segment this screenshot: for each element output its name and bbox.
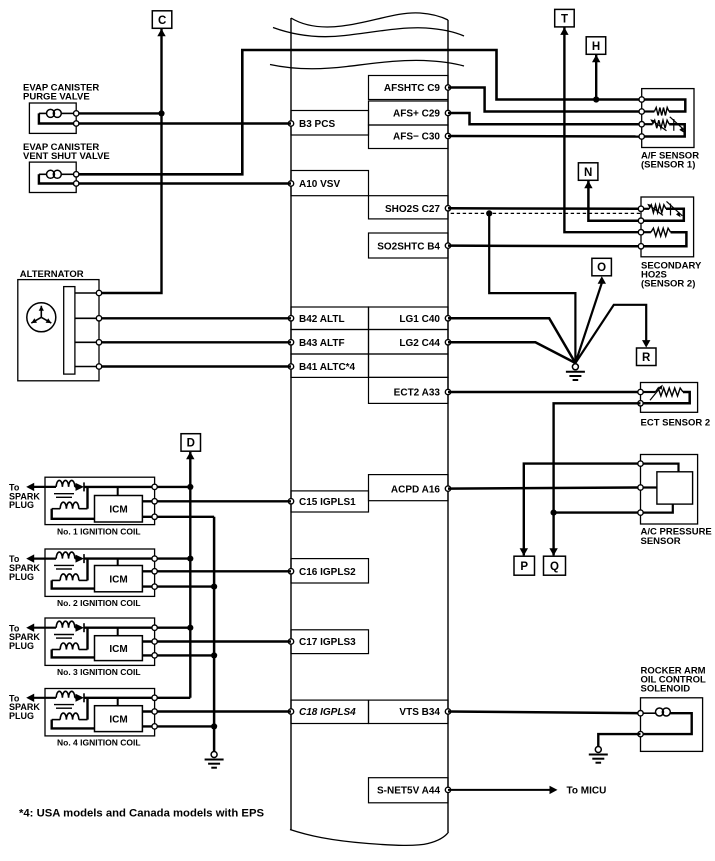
A/C pressure sensor inner element — [657, 472, 693, 504]
ECM pin ACPD A16 terminal — [445, 486, 450, 491]
wire vent valve to A/F sensor heater supply — [79, 50, 642, 174]
svg-text:(SENSOR 2): (SENSOR 2) — [641, 279, 695, 290]
EVAP canister vent shut valve body — [29, 162, 76, 192]
ECM/PCM connector box left edge — [290, 18, 292, 830]
svg-text:ALTERNATOR: ALTERNATOR — [20, 269, 84, 280]
svg-text:No. 3 IGNITION COIL: No. 3 IGNITION COIL — [57, 667, 141, 677]
junction purge wire / C riser — [158, 110, 164, 116]
ECM pin AFS&#8722; C30 label cell — [369, 125, 449, 149]
svg-text:N: N — [584, 167, 592, 179]
svg-text:ICM: ICM — [109, 714, 127, 725]
secondary HO2S body — [641, 197, 694, 257]
ignition coil 1 ICM signal wire to pin — [142, 500, 291, 502]
wire node H vertical — [595, 55, 597, 100]
rocker arm oil control solenoid body — [641, 698, 703, 752]
connector node N box — [578, 163, 598, 181]
node N arrow — [584, 181, 592, 189]
ignition coil 2 secondary return wire — [52, 580, 95, 588]
ignition coil 2 terminals — [152, 556, 157, 561]
ignition coil 3 ICM signal wire to pin — [142, 640, 291, 642]
ignition coil 2 secondary winding — [60, 574, 79, 581]
ECM bottom torn-edge wave — [290, 830, 449, 846]
wire rocker arm solenoid to ground — [598, 734, 640, 746]
node T arrow — [560, 27, 568, 35]
wire ground to node O — [575, 283, 601, 363]
ECM pin SHO2S C27 terminal — [445, 206, 450, 211]
ECM pin C17 IGPLS3 terminal — [288, 639, 293, 644]
ECM pin LG2 C44 label cell — [369, 330, 449, 355]
junction ground bus coil 2 — [211, 584, 217, 590]
svg-text:C16 IGPLS2: C16 IGPLS2 — [299, 567, 356, 578]
connector node H box — [586, 37, 606, 55]
ignition coil 4 primary winding — [56, 691, 75, 698]
svg-text:PLUG: PLUG — [9, 711, 34, 721]
ECM pin C15 IGPLS1 label cell — [291, 491, 369, 512]
ignition coil 3 diode — [76, 624, 85, 632]
ECM pin VTS B34 terminal — [445, 709, 450, 714]
ECM top torn-edge wave 2 — [273, 28, 464, 37]
ignition coil 3 secondary return wire — [52, 650, 95, 658]
ignition coil 2 ICM supply stub — [117, 559, 119, 566]
ECT sensor 2 body — [641, 383, 698, 413]
ECM pin AFSHTC C9 terminal — [445, 85, 450, 90]
svg-text:*4: USA models and Canada mode: *4: USA models and Canada models with EP… — [19, 807, 264, 819]
ECM top torn-edge wave 1 — [291, 13, 448, 27]
ignition coil 4 secondary return wire — [52, 720, 95, 729]
ECM pin AFS+ C29 terminal — [445, 110, 450, 115]
svg-text:C17 IGPLS3: C17 IGPLS3 — [299, 637, 356, 648]
connector node D box — [181, 434, 201, 452]
ignition coil 2 ICM ground wire — [142, 585, 214, 587]
svg-text:No. 4 IGNITION COIL: No. 4 IGNITION COIL — [57, 738, 141, 748]
A/F sensor terminals — [639, 97, 644, 102]
ECM pin B41 ALTC*4 terminal — [288, 364, 293, 369]
ignition coil 3 ICM supply stub — [117, 628, 119, 636]
svg-text:ICM: ICM — [109, 574, 127, 585]
secondary HO2S heater resistor — [641, 231, 651, 233]
ECM pin C17 IGPLS3 label cell — [291, 630, 369, 654]
wire node N vertical to secondary HO2S — [588, 181, 641, 221]
wire pin LG2 C44 to ground — [448, 342, 575, 363]
svg-text:C18 IGPLS4: C18 IGPLS4 — [299, 707, 356, 718]
node P arrow — [520, 548, 528, 556]
svg-text:B43 ALTF: B43 ALTF — [299, 338, 345, 349]
ignition coil 1 ICM box — [95, 496, 143, 523]
A/C pressure sensor body — [641, 455, 698, 525]
secondary HO2S sensing element — [641, 208, 649, 210]
connector node P box — [514, 556, 535, 575]
ignition coil 3 primary output wire — [84, 627, 155, 629]
ECM pin S-NET5V A44 terminal — [445, 787, 450, 792]
junction Q wire / A-C pressure sensor wire — [551, 509, 557, 515]
ECM pin SO2SHTC B4 label cell — [369, 233, 449, 258]
svg-text:ICM: ICM — [109, 504, 127, 515]
ECM pin C16 IGPLS2 label cell — [291, 559, 369, 583]
A/F sensor element arrows — [653, 121, 667, 131]
ignition coil 2 spark plug arrow — [26, 554, 34, 562]
ignition coil 4 ICM supply stub — [117, 698, 119, 706]
node O arrow — [598, 276, 606, 284]
junction H wire on heater supply wire — [593, 96, 599, 102]
ignition coil 1 terminals — [152, 484, 157, 489]
ECM pin AFS+ C29 label cell — [369, 101, 449, 125]
vent valve terminals — [74, 172, 79, 177]
A/F sensor sensing element — [642, 123, 653, 125]
ignition coil 1 primary winding — [56, 480, 75, 487]
rocker arm solenoid ground G101 — [595, 747, 601, 753]
ECM pin A10 VSV terminal — [288, 181, 293, 186]
connector node C box — [152, 11, 172, 29]
ECM pin C15 IGPLS1 terminal — [288, 499, 293, 504]
svg-text:No. 2 IGNITION COIL: No. 2 IGNITION COIL — [57, 598, 141, 608]
node C arrow — [157, 29, 165, 37]
svg-text:D: D — [187, 438, 195, 450]
shield dashed line — [451, 212, 641, 214]
purge valve solenoid coil — [47, 109, 55, 117]
ignition coils ground G100 — [211, 752, 217, 758]
wire pin LG1 C40 to ground — [448, 318, 575, 363]
svg-text:Q: Q — [550, 561, 559, 573]
A/C pressure sensor terminals — [638, 461, 643, 466]
ECM pin LG2 C44 terminal — [445, 340, 450, 345]
ECM pin B43 ALTF label cell — [291, 330, 369, 355]
connector node T box — [555, 9, 575, 27]
wire ground to node R — [575, 305, 646, 363]
ignition coil 4 spark plug arrow — [26, 694, 34, 702]
A/F sensor heater resistor — [642, 110, 655, 112]
alternator generator circle symbol — [27, 303, 56, 332]
vent valve internal wire — [39, 174, 76, 183]
svg-text:A10 VSV: A10 VSV — [299, 179, 340, 190]
svg-text:PLUG: PLUG — [9, 641, 34, 651]
ignition coil 1 primary output wire — [84, 486, 155, 488]
ignition coil 4 terminals — [152, 695, 157, 700]
ECM pin SHO2S C27 label cell — [369, 196, 449, 219]
svg-text:AFSHTC C9: AFSHTC C9 — [384, 83, 441, 94]
svg-text:VTS B34: VTS B34 — [399, 707, 440, 718]
To MICU arrow — [550, 786, 558, 794]
wire vent valve to pin A10 VSV — [79, 182, 291, 184]
A/F sensor body — [642, 89, 694, 148]
ignition coil 1 core — [54, 493, 74, 495]
secondary HO2S element arrows — [650, 205, 664, 215]
ECM pin C18 IGPLS4 label cell — [291, 700, 369, 723]
ECM pin B41 ALTC*4 label cell — [291, 354, 369, 377]
rocker arm solenoid coil — [641, 712, 657, 714]
svg-text:LG1 C40: LG1 C40 — [399, 314, 440, 325]
wire shield drain to ground — [489, 213, 575, 363]
junction D bus coil 2 — [187, 556, 193, 562]
ignition coil 4 ICM signal wire to pin — [142, 710, 291, 712]
ignition coil 2 primary winding — [56, 552, 75, 559]
wire A/C pressure sensor to node P — [524, 464, 641, 556]
wire node T vertical to secondary HO2S — [564, 27, 641, 232]
wire A/C pressure sensor low side to node Q — [554, 511, 641, 513]
svg-text:PURGE VALVE: PURGE VALVE — [23, 92, 90, 103]
ignition coil 2 primary output wire — [84, 557, 155, 559]
ignition coil 2 diode — [76, 555, 85, 563]
connector node R box — [637, 348, 657, 366]
ECM pin B3 PCS terminal — [288, 121, 293, 126]
svg-text:SHO2S C27: SHO2S C27 — [385, 204, 440, 215]
ignition coil 4 diode — [76, 694, 85, 702]
wire pin S-NET5V A44 to MICU — [448, 789, 551, 791]
ECM pin B3 PCS label cell — [291, 111, 369, 136]
wire pin AFS+ C29 to A/F sensor — [448, 113, 642, 124]
ECM pin A10 VSV label cell — [291, 171, 369, 196]
svg-text:C: C — [158, 15, 166, 27]
ECM pin B43 ALTF terminal — [288, 340, 293, 345]
svg-text:SOLENOID: SOLENOID — [641, 683, 691, 694]
ECM top torn-edge wave 3 — [270, 60, 464, 68]
ECM pin unlabeled label cell — [369, 354, 449, 377]
node Q arrow — [549, 548, 557, 556]
ECM pin SO2SHTC B4 terminal — [445, 243, 450, 248]
wire pin SO2SHTC B4 to secondary HO2S — [448, 244, 641, 247]
ignition coil 3 core — [54, 634, 74, 636]
wire pin AFS- C30 to A/F sensor — [448, 135, 642, 138]
svg-text:SO2SHTC B4: SO2SHTC B4 — [377, 241, 440, 252]
ignition coil 3 ICM ground wire — [142, 654, 214, 656]
ignition coil 4 ICM ground wire — [142, 725, 214, 727]
ignition coil 4 secondary winding — [60, 713, 79, 720]
svg-text:LG2 C44: LG2 C44 — [399, 338, 440, 349]
ignition coil 3 body — [45, 618, 155, 665]
ignition coil 1 spark plug arrow — [26, 483, 34, 491]
ECM pin AFS&#8722; C30 terminal — [445, 133, 450, 138]
svg-text:PLUG: PLUG — [9, 500, 34, 510]
vent valve solenoid coil — [47, 170, 55, 178]
ECM pin C18 IGPLS4 terminal — [288, 709, 293, 714]
ignition coil 2 ICM signal wire to pin — [142, 570, 291, 572]
ignition coil 1 body — [45, 477, 155, 524]
ignition coil 1 ICM supply stub — [117, 487, 119, 496]
node H arrow — [592, 55, 600, 63]
ECM pin AFSHTC C9 label cell — [369, 76, 449, 100]
wire pin AFSHTC C9 to A/F sensor — [448, 88, 642, 112]
ignition ground bus — [213, 517, 216, 752]
ECT sensor 2 terminals — [638, 389, 643, 394]
ignition coil 3 ICM box — [95, 636, 143, 661]
ECM pin C16 IGPLS2 terminal — [288, 569, 293, 574]
ECT sensor 2 thermistor arrow — [650, 387, 661, 400]
ECM pin B42 ALTL terminal — [288, 316, 293, 321]
svg-text:T: T — [561, 13, 568, 25]
svg-text:B41 ALTC*4: B41 ALTC*4 — [299, 362, 356, 373]
ECM pin S-NET5V A44 label cell — [369, 778, 449, 803]
ignition coil 3 primary winding — [56, 621, 75, 628]
rocker arm solenoid terminals — [638, 711, 643, 716]
ignition coil 3 secondary winding — [60, 643, 79, 650]
wire pin ECT2 A33 to ECT sensor 2 — [448, 391, 641, 394]
ignition coil 1 secondary return wire — [52, 509, 95, 519]
ignition coil 1 secondary winding — [60, 502, 79, 509]
node D arrow — [186, 452, 194, 460]
ignition coil 1 supply wire to node D bus — [155, 486, 191, 488]
svg-text:(SENSOR 1): (SENSOR 1) — [641, 160, 695, 171]
wire pin VTS B34 to rocker arm solenoid — [448, 712, 641, 714]
alternator connector strip — [64, 287, 75, 375]
ECM pin ECT2 A33 label cell — [369, 377, 449, 403]
ignition coil 3 spark plug arrow — [26, 624, 34, 632]
ignition coil 3 supply wire to node D bus — [155, 627, 191, 629]
ignition coil 4 body — [45, 689, 155, 736]
connector node Q box — [544, 556, 566, 575]
svg-text:H: H — [592, 41, 600, 53]
ignition coil 1 diode — [76, 483, 85, 491]
ignition coil 2 ICM box — [95, 566, 143, 592]
wire ECT sensor 2 to node Q — [554, 403, 641, 555]
svg-text:AFS− C30: AFS− C30 — [393, 132, 440, 143]
svg-text:SENSOR: SENSOR — [641, 536, 681, 547]
junction D bus coil 1 — [187, 484, 193, 490]
svg-text:B3 PCS: B3 PCS — [299, 119, 335, 130]
wire purge valve to pin B3 PCS — [79, 122, 291, 124]
ignition coil 2 supply wire to node D bus — [155, 557, 191, 559]
junction shield drain — [486, 210, 492, 216]
ECM/PCM connector box right edge — [447, 20, 449, 832]
ECM pin LG1 C40 label cell — [369, 307, 449, 330]
wire alternator to pin B42 ALTL — [102, 317, 291, 319]
ignition coil 2 core — [54, 564, 74, 566]
ECT sensor 2 thermistor — [641, 391, 656, 393]
wire alternator to pin B41 ALTC*4 — [102, 365, 291, 367]
svg-text:ECT SENSOR 2: ECT SENSOR 2 — [641, 417, 711, 428]
svg-text:R: R — [642, 352, 651, 364]
ignition coil 4 ICM box — [95, 706, 143, 732]
svg-text:S-NET5V A44: S-NET5V A44 — [377, 786, 440, 797]
EVAP canister purge valve body — [29, 103, 76, 133]
purge valve internal wire — [39, 113, 76, 123]
svg-text:P: P — [520, 561, 528, 573]
svg-text:ECT2 A33: ECT2 A33 — [394, 388, 441, 399]
ECM pin VTS B34 label cell — [369, 700, 449, 723]
ECM pin LG1 C40 terminal — [445, 316, 450, 321]
junction ground bus coil 4 — [211, 723, 217, 729]
wire alternator to pin B43 ALTF — [102, 341, 291, 343]
svg-text:O: O — [597, 262, 606, 274]
svg-text:PLUG: PLUG — [9, 572, 34, 582]
wire purge valve to node C riser — [79, 112, 162, 114]
ignition coil 4 primary output wire — [84, 697, 155, 699]
junction D bus coil 3 — [187, 625, 193, 631]
ignition coil 3 terminals — [152, 625, 157, 630]
svg-text:B42 ALTL: B42 ALTL — [299, 314, 345, 325]
ECM pin ACPD A16 label cell — [369, 475, 449, 501]
svg-text:AFS+ C29: AFS+ C29 — [393, 109, 440, 120]
ignition coil 1 ICM ground wire — [142, 516, 214, 518]
purge valve terminals — [74, 111, 79, 116]
alternator terminals — [75, 292, 99, 294]
ECM pin B42 ALTL label cell — [291, 307, 369, 330]
ignition coil 4 supply wire to node D bus — [155, 697, 191, 699]
wire node C vertical to alternator — [99, 29, 162, 293]
connector node O box — [592, 258, 612, 276]
wire pin ACPD A16 to A/C pressure sensor — [448, 488, 641, 489]
svg-text:To MICU: To MICU — [567, 786, 607, 797]
svg-text:ICM: ICM — [109, 644, 127, 655]
node R arrow — [642, 340, 650, 348]
secondary HO2S terminals — [638, 206, 643, 211]
node D supply bus — [189, 452, 191, 698]
wire pin SHO2S C27 to secondary HO2S — [448, 207, 641, 210]
svg-text:No. 1 IGNITION COIL: No. 1 IGNITION COIL — [57, 526, 141, 536]
junction ground bus coil 3 — [211, 652, 217, 658]
svg-text:VENT SHUT VALVE: VENT SHUT VALVE — [23, 151, 110, 162]
ECM pin ECT2 A33 terminal — [445, 389, 450, 394]
svg-text:C15 IGPLS1: C15 IGPLS1 — [299, 497, 356, 508]
alternator body — [18, 280, 99, 381]
svg-text:ACPD A16: ACPD A16 — [391, 484, 441, 495]
ignition coil 2 body — [45, 549, 155, 596]
ignition coil 4 core — [54, 704, 74, 706]
ground G101 — [572, 364, 578, 370]
